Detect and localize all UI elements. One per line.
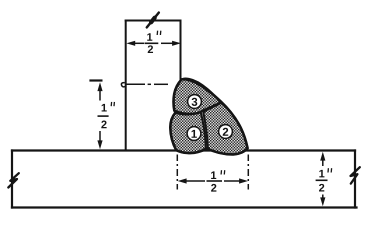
- top dimension: line and arrows: [126, 41, 181, 46]
- right dimension label numerator 1: [319, 170, 324, 178]
- bottom dimension extension line left (dash-dot): [176, 155, 178, 190]
- pass number circle 2: [219, 125, 233, 139]
- centerline (dash-dot) at weld top: [121, 83, 168, 87]
- right dimension fraction bar: [316, 179, 328, 181]
- weld pass 3 (top bead, stippled): [174, 78, 221, 113]
- weld pass 1 (lower-left bead, stippled): [170, 112, 206, 153]
- vertical plate outline: [126, 21, 181, 151]
- bottom dimension line and arrows: [178, 178, 248, 183]
- left dimension label numerator 1: [102, 104, 107, 112]
- right dimension denominator 2: [319, 184, 324, 192]
- digit 2: [223, 128, 229, 136]
- left dimension denominator 2: [101, 121, 106, 129]
- bottom dimension extension line right (dash-dot): [247, 155, 249, 190]
- base plate (horizontal plate outline): [12, 151, 357, 208]
- bottom dimension fraction bar: [207, 180, 223, 182]
- top dimension denominator 2: [148, 45, 153, 53]
- left dimension: tick, line, arrows: [89, 81, 102, 150]
- bottom dimension inch marks: [221, 170, 225, 174]
- top dimension fraction bar: [145, 42, 159, 44]
- top dimension inch marks: [157, 31, 161, 35]
- bottom dimension denominator 2: [211, 184, 216, 192]
- left dimension fraction bar: [98, 115, 109, 117]
- break symbol left edge of base plate: [8, 173, 18, 187]
- weld pass 2 (lower-right bead, stippled): [203, 103, 247, 155]
- top dimension label numerator 1: [147, 33, 152, 41]
- bottom dimension label numerator 1: [211, 171, 216, 179]
- digit 1: [192, 130, 197, 138]
- pass number circle 3: [188, 95, 202, 109]
- pass number circle 1: [187, 127, 201, 141]
- digit 3: [192, 98, 198, 106]
- break symbol top edge of vertical plate: [147, 13, 159, 28]
- weld outer outline (thick silhouette): [170, 79, 247, 154]
- right dimension inch marks: [328, 168, 332, 172]
- break symbol right edge of base plate: [351, 167, 360, 183]
- left dimension inch marks: [111, 102, 114, 106]
- right dimension line and arrows: [320, 152, 325, 207]
